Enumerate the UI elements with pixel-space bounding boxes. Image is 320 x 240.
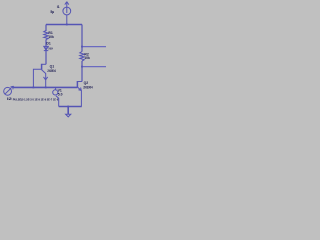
- node I1 junction: [66, 24, 68, 26]
- wire left branch upper: [45, 25, 47, 32]
- resistor R2: [80, 52, 84, 62]
- wire emitter rail: [59, 106, 82, 108]
- node Q1 emitter junction: [45, 87, 47, 89]
- background: [0, 0, 112, 120]
- svg-text:D1: D1: [46, 42, 50, 46]
- voltage source V1: [53, 87, 59, 106]
- svg-text:5.0: 5.0: [58, 92, 63, 96]
- node stub upper: [82, 46, 106, 48]
- svg-text:10k: 10k: [84, 56, 90, 60]
- svg-text:1N914: 1N914: [48, 47, 53, 51]
- resistor R1: [44, 31, 48, 40]
- wire right branch upper: [81, 25, 83, 47]
- svg-text:2N3904: 2N3904: [83, 85, 93, 89]
- wire base rail: [14, 86, 77, 88]
- svg-text:I1: I1: [57, 5, 60, 9]
- wire right branch lower: [81, 67, 83, 82]
- current source I2: [4, 86, 14, 95]
- transistor Q1: [33, 64, 47, 88]
- node Q1 base junction: [33, 87, 35, 89]
- node stub lower: [82, 66, 106, 68]
- ground: [66, 114, 71, 117]
- svg-text:5µ: 5µ: [50, 10, 54, 14]
- svg-text:Q1: Q1: [50, 65, 55, 69]
- wire left branch mid1: [45, 40, 47, 47]
- wire left branch mid2: [45, 46, 47, 64]
- svg-text:2N3904: 2N3904: [47, 69, 56, 73]
- svg-text:I2: I2: [7, 97, 12, 101]
- svg-text:10k: 10k: [48, 35, 54, 39]
- wire ground tap: [67, 107, 69, 115]
- wire top rail: [46, 24, 82, 26]
- wire right branch mid: [81, 61, 83, 67]
- transistor Q2: [77, 81, 82, 107]
- diode D1: [44, 46, 49, 50]
- svg-text:PULSE(0 1.5E-3 0 1E-9 1E-9 5E-: PULSE(0 1.5E-3 0 1E-9 1E-9 5E-7 1E-6): [13, 98, 59, 102]
- current source I1: [63, 2, 71, 25]
